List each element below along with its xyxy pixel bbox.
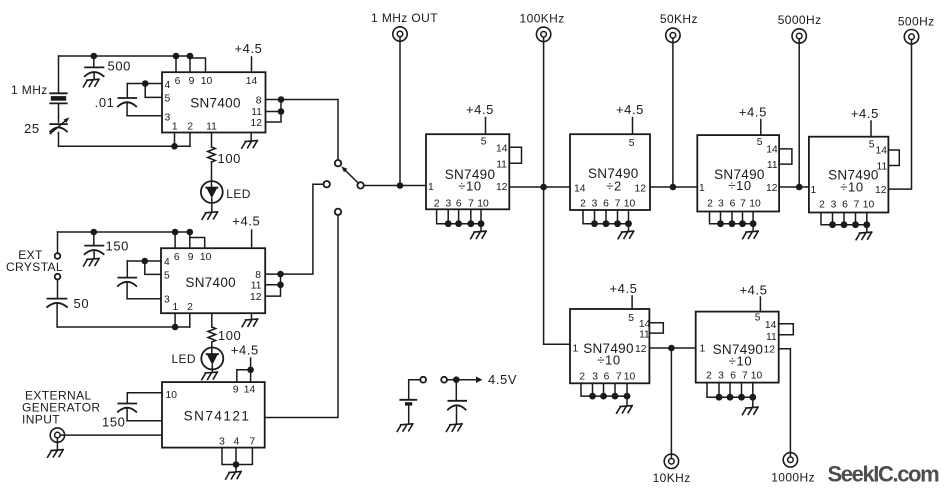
wire top rail oscillator 1: [59, 55, 191, 57]
wire ground stub U5: [628, 224, 630, 232]
svg-text:.01: .01: [95, 95, 115, 110]
svg-text:3: 3: [831, 200, 837, 211]
wire ground stub U1 pin 7: [250, 133, 252, 141]
svg-text:2: 2: [706, 371, 712, 382]
svg-text:25: 25: [24, 121, 40, 136]
wire +4.5 to pin 5 U8: [631, 296, 633, 309]
wire +4.5 to pin 5 U9: [759, 297, 761, 312]
svg-text:10: 10: [201, 76, 213, 87]
crystal Y1 1MHz: [50, 93, 66, 103]
op-amp U2 SN7400 body: [161, 248, 265, 313]
svg-text:10: 10: [200, 252, 212, 263]
label U9 SN7490: [713, 342, 764, 368]
svg-text:7: 7: [742, 371, 748, 382]
svg-text:12: 12: [635, 344, 647, 355]
svg-text:3: 3: [165, 113, 171, 124]
wire ground bus U7: [821, 213, 867, 225]
svg-text:11: 11: [496, 160, 507, 171]
wire tie 8-11: [280, 100, 282, 112]
svg-text:11: 11: [251, 281, 262, 292]
svg-text:7: 7: [740, 199, 746, 210]
svg-text:500: 500: [108, 59, 132, 74]
svg-text:1: 1: [700, 344, 706, 355]
capacitor C6 .01: [118, 261, 136, 299]
svg-text:150: 150: [102, 415, 126, 430]
wire 50KHz riser: [672, 38, 674, 187]
svg-text:4: 4: [164, 257, 170, 268]
counter U7 SN7490 div10 body: [809, 137, 889, 213]
switch S1 throw 3 contact: [335, 209, 341, 215]
svg-text:1: 1: [173, 302, 179, 313]
wire pin 11 U1 to resistor: [211, 133, 213, 148]
wire bottom rail oscillator 2: [58, 326, 190, 328]
node junctions bus U4: [445, 220, 485, 227]
node junctions bus U5: [591, 220, 632, 227]
wire 100KHz riser and feed to U8: [544, 37, 570, 344]
resistor R2 100: [208, 327, 216, 342]
wire ground stub U6: [752, 224, 754, 232]
wire ground stub U7: [866, 225, 868, 233]
svg-text:9: 9: [188, 252, 194, 263]
svg-text:14: 14: [766, 145, 778, 156]
wire pin 8 U1: [266, 99, 282, 101]
wire bottom rail oscillator 1: [59, 145, 191, 147]
svg-text:1 MHz OUT: 1 MHz OUT: [371, 11, 438, 25]
svg-text:+4.5: +4.5: [234, 41, 262, 56]
svg-text:11: 11: [767, 160, 778, 171]
switch S1 throw 2 contact: [324, 181, 330, 187]
svg-text:11: 11: [766, 332, 777, 343]
wire pin 1 U2 to rail: [174, 313, 176, 327]
terminal 1000Hz: [783, 453, 797, 467]
svg-text:500Hz: 500Hz: [898, 15, 935, 29]
node junction pin4/pin5 U2: [142, 258, 149, 265]
node junction pin4/pin5: [142, 80, 149, 87]
wire pin 9 U1: [189, 56, 191, 72]
wire ground bus U4: [437, 209, 481, 223]
wire pin 2 U2 to rail: [189, 313, 191, 327]
capacitor C7 150pF: [118, 393, 136, 421]
svg-text:1: 1: [811, 185, 817, 196]
capacitor trimmer 25pF: [50, 117, 69, 133]
op-amp U1 SN7400 body: [162, 72, 266, 132]
node junction rail2 / 150pF: [91, 229, 98, 236]
node +4.5V terminal: [441, 377, 447, 383]
svg-text:+4.5: +4.5: [231, 343, 259, 358]
ground under U7: [856, 232, 872, 240]
svg-text:2: 2: [580, 199, 586, 210]
wire pin 8 U2: [265, 273, 280, 275]
wire pin 12 U5 to 50KHz node: [650, 186, 697, 188]
wire C7 bottom to pin 5 U3: [127, 420, 162, 422]
svg-text:11: 11: [206, 122, 217, 133]
wire loop pins 14-11 U7: [888, 150, 899, 166]
svg-text:5: 5: [628, 313, 634, 324]
terminal 100KHz: [536, 27, 550, 41]
svg-text:1: 1: [428, 182, 434, 193]
svg-text:8: 8: [256, 95, 262, 106]
ground under LED1: [202, 212, 218, 220]
counter U8 SN7490 div10 body: [570, 309, 649, 383]
svg-text:1: 1: [573, 344, 579, 355]
wire +4.5 to pin 5 U5: [632, 118, 634, 135]
node ext crystal terminal lower: [55, 274, 61, 280]
wire loop pins 14-11 U6: [779, 149, 792, 164]
wire pins 3 4 7 bus U3: [222, 448, 252, 465]
pin labels right U1: [251, 95, 263, 129]
svg-text:2: 2: [434, 199, 440, 210]
wire ground stub U2 pin 7: [251, 313, 253, 319]
node junction pin 11: [278, 108, 285, 115]
terminal 500Hz: [904, 30, 918, 44]
node junctions bus U9: [716, 394, 757, 401]
svg-text:+4.5: +4.5: [232, 214, 260, 229]
wire ground stub U3: [235, 465, 237, 472]
wire crystal to trimmer: [58, 103, 60, 122]
counter U6 SN7490 div10 body: [697, 135, 779, 211]
svg-text:10: 10: [749, 199, 761, 210]
pin labels bottom U2: [173, 302, 194, 313]
wire pin 6 U1: [175, 56, 177, 72]
wire ground stub U4: [480, 224, 482, 232]
ground under U3: [226, 472, 242, 480]
wire junction down to pin 5: [145, 84, 162, 98]
svg-text:6: 6: [456, 199, 462, 210]
wire ground bus U9: [707, 383, 753, 398]
wire jog to pin 10 U1: [190, 58, 206, 72]
pin labels bottom U6: [707, 199, 761, 210]
wire C6 top to pin 4 U2: [127, 260, 161, 262]
wire jog to pin 10 U2: [190, 238, 205, 249]
wire loop pins 14-11 U4: [509, 147, 521, 163]
svg-text:14: 14: [246, 76, 258, 87]
wire U2 output to switch throw 2: [281, 184, 324, 274]
svg-text:4: 4: [165, 80, 171, 91]
wire 10KHz dropper: [670, 348, 672, 458]
wire resistor to LED1: [211, 162, 213, 187]
label EXT CRYSTAL: [6, 248, 63, 274]
pin labels bottom U9: [706, 371, 762, 382]
node junction pin 11 U2: [277, 282, 284, 289]
svg-text:÷10: ÷10: [597, 352, 620, 367]
capacitor C8 filter: [448, 383, 466, 425]
svg-text:7: 7: [468, 199, 474, 210]
node junctions bus U6: [717, 220, 756, 227]
ground under LED2: [202, 372, 218, 380]
pin labels left U2: [164, 257, 170, 306]
svg-text:5: 5: [481, 137, 487, 148]
wire pin 10 U3 to cap: [127, 392, 162, 394]
svg-text:÷2: ÷2: [606, 179, 622, 194]
wire top rail oscillator 2: [58, 231, 190, 233]
svg-text:150: 150: [106, 239, 130, 254]
svg-text:2: 2: [819, 200, 825, 211]
arrow 4.5V feed: [476, 377, 483, 383]
one-shot U3 SN74121 body: [162, 382, 265, 448]
wire ground stub U8: [626, 396, 628, 406]
svg-text:100: 100: [218, 328, 242, 343]
ground under U1: [242, 141, 258, 149]
wire terminal to 50pF: [57, 279, 59, 297]
label U4 SN7490: [445, 167, 496, 194]
wire terminal to arrow: [447, 379, 477, 381]
node junction filter cap: [453, 376, 460, 383]
wire pole to divider chain: [364, 185, 426, 187]
wire input terminal to U3: [60, 434, 162, 436]
wire 5000Hz riser: [798, 39, 800, 187]
svg-text:CRYSTAL: CRYSTAL: [6, 260, 63, 274]
wire tie 8-11 U2: [280, 274, 282, 285]
capacitor C1 500pF: [85, 56, 104, 79]
wire ground bus U6: [710, 212, 754, 224]
svg-text:5000Hz: 5000Hz: [778, 13, 822, 27]
svg-text:2: 2: [579, 371, 585, 382]
ground under U4: [471, 231, 487, 239]
wire ground bus U8: [581, 383, 627, 396]
svg-text:3: 3: [219, 437, 225, 448]
svg-text:11: 11: [251, 107, 262, 118]
terminal 1MHz OUT: [393, 27, 407, 41]
svg-text:9: 9: [189, 76, 195, 87]
switch S1 throw 1 contact: [335, 160, 341, 166]
capacitor C4 50pF: [47, 299, 67, 327]
svg-text:5: 5: [629, 138, 635, 149]
node junction top rail / pin 6: [173, 53, 180, 60]
svg-text:1: 1: [699, 183, 705, 194]
ground under U9: [742, 407, 758, 415]
wire pin 11 U1: [266, 111, 282, 113]
svg-text:12: 12: [250, 292, 262, 303]
node junction 5000Hz: [796, 184, 803, 191]
wire +4.5 to pin 14 U1: [251, 57, 253, 72]
svg-text:7: 7: [250, 437, 256, 448]
switch S1 pole contact: [357, 182, 363, 188]
counter U9 SN7490 div10 body: [696, 312, 779, 383]
node junction rail2 / pin 6: [172, 229, 179, 236]
svg-text:3: 3: [592, 371, 598, 382]
svg-text:50: 50: [74, 296, 90, 311]
svg-text:5: 5: [164, 271, 170, 282]
svg-text:12: 12: [496, 182, 508, 193]
node junctions bus U7: [829, 221, 870, 228]
battery BT1: [400, 400, 416, 424]
label U8 SN7490: [583, 341, 634, 368]
svg-text:10: 10: [624, 199, 636, 210]
wire pin 12 U8 to U9: [649, 347, 695, 349]
svg-text:÷10: ÷10: [458, 178, 481, 193]
ground under 500pF: [83, 79, 99, 87]
ground under filter cap: [446, 424, 462, 432]
node junction pin 8: [278, 96, 285, 103]
node junction 100KHz: [540, 184, 547, 191]
wire +4.5 to pin 5 U6: [760, 120, 762, 136]
svg-text:SN7400: SN7400: [190, 96, 241, 111]
node junction +4.5 U3: [247, 367, 254, 374]
wire ground bus U5: [583, 210, 629, 224]
terminal 50KHz: [666, 28, 680, 42]
svg-text:14: 14: [496, 143, 508, 154]
svg-text:3: 3: [718, 199, 724, 210]
svg-text:14: 14: [574, 184, 586, 195]
svg-text:÷10: ÷10: [840, 180, 863, 195]
svg-text:11: 11: [877, 162, 888, 173]
wire pin 11 U2 to resistor: [211, 313, 213, 327]
wire C2 top to pin 4: [127, 83, 162, 85]
wire pin 12 U6 to U7: [779, 186, 809, 188]
pin labels bottom U7: [819, 200, 874, 211]
svg-text:7: 7: [616, 371, 622, 382]
svg-text:10: 10: [477, 199, 489, 210]
ground under U8: [617, 406, 633, 414]
svg-text:6: 6: [730, 371, 736, 382]
terminal external generator input: [50, 428, 64, 442]
pin labels left U1: [165, 80, 171, 124]
svg-text:3: 3: [592, 199, 598, 210]
svg-text:12: 12: [766, 183, 778, 194]
svg-text:10KHz: 10KHz: [653, 471, 691, 485]
node junction rail2b / pin 1: [172, 324, 179, 331]
svg-text:1 MHz: 1 MHz: [11, 83, 48, 97]
svg-text:8: 8: [255, 270, 261, 281]
resistor R1 100: [208, 147, 216, 162]
wire ground stub U9: [752, 397, 754, 407]
svg-text:5: 5: [757, 137, 763, 148]
wire pin 6 U2: [174, 232, 176, 248]
capacitor C5 150pF: [85, 232, 104, 259]
capacitor C2 .01: [118, 84, 136, 116]
svg-text:12: 12: [764, 345, 776, 356]
wire U1 output to switch throw 1: [281, 100, 338, 160]
label U6 SN7490: [714, 167, 765, 193]
svg-text:2: 2: [187, 302, 193, 313]
svg-text:4: 4: [234, 437, 240, 448]
pin labels bottom U4: [434, 199, 489, 210]
svg-text:INPUT: INPUT: [22, 413, 60, 427]
svg-text:10: 10: [624, 371, 636, 382]
node junction 1MHz out: [397, 182, 404, 189]
svg-text:9: 9: [233, 385, 239, 396]
ground under 150pF: [84, 258, 100, 266]
svg-text:+4.5: +4.5: [851, 106, 879, 121]
wire rail2 to ext crystal terminal: [57, 232, 59, 253]
wire pin 11 U2: [265, 284, 280, 286]
ground under U2: [242, 319, 258, 327]
wire +4.5 to pin 5 U7: [870, 121, 872, 137]
svg-text:SN74121: SN74121: [184, 409, 251, 424]
svg-text:6: 6: [604, 371, 610, 382]
svg-text:6: 6: [842, 200, 848, 211]
wire junction to pin 5 U2: [145, 261, 161, 274]
node junction 10KHz: [668, 345, 675, 352]
svg-text:6: 6: [603, 199, 609, 210]
svg-text:7: 7: [854, 200, 860, 211]
node junction bottom rail / pin 1: [171, 143, 178, 150]
svg-text:6: 6: [175, 76, 181, 87]
node battery terminal: [420, 377, 426, 383]
pin labels 9 14 U3: [233, 385, 256, 396]
ground under U6: [743, 231, 759, 239]
ground under battery: [397, 424, 413, 432]
svg-text:12: 12: [875, 185, 887, 196]
terminal 10KHz: [664, 454, 678, 468]
switch S1 arm with arrow: [341, 166, 358, 183]
wire 1MHz out riser: [399, 37, 401, 186]
wire C6 bottom to pin 3 U2: [127, 298, 161, 300]
svg-text:6: 6: [174, 252, 180, 263]
wire +4.5 to pin 5 U4: [485, 118, 487, 135]
svg-text:2: 2: [187, 122, 193, 133]
node junction 50KHz: [670, 184, 677, 191]
svg-text:5: 5: [755, 313, 761, 324]
svg-text:11: 11: [639, 329, 650, 340]
svg-text:+4.5: +4.5: [739, 282, 767, 297]
wire C2 bottom to pin 3: [127, 115, 162, 117]
svg-text:+4.5: +4.5: [739, 105, 767, 120]
svg-text:14: 14: [244, 385, 256, 396]
wire pin 12 U1: [266, 112, 282, 123]
svg-text:3: 3: [164, 295, 170, 306]
wire trimmer to bottom rail: [58, 133, 60, 147]
LED LED2: [201, 348, 223, 373]
svg-text:÷10: ÷10: [728, 178, 751, 193]
svg-text:2: 2: [707, 199, 713, 210]
pin labels right U2: [250, 270, 262, 303]
wire pin 12 U4 to 100KHz node: [509, 186, 570, 188]
wire throw 3 to SN74121 output: [265, 215, 338, 418]
wire pin 12 U2: [265, 285, 280, 296]
wire loop pins 14-11 U8: [649, 323, 663, 333]
wire pin 9 U2: [189, 232, 191, 248]
node junctions bus U8: [589, 393, 630, 400]
terminal 5000Hz: [792, 29, 806, 43]
node junction top rail / pin 9: [187, 53, 194, 60]
svg-text:3: 3: [446, 199, 452, 210]
svg-text:+4.5: +4.5: [616, 102, 644, 117]
svg-text:10: 10: [863, 200, 875, 211]
svg-text:12: 12: [635, 184, 647, 195]
counter U4 SN7490 div10 body: [426, 134, 509, 209]
wire pin 2 U1 to bottom rail: [189, 133, 191, 147]
wire pin 12 U7 to 500Hz riser: [888, 40, 911, 189]
svg-text:10: 10: [751, 371, 763, 382]
wire +4.5 feed U3: [250, 358, 252, 370]
svg-text:14: 14: [639, 319, 651, 330]
svg-text:LED: LED: [171, 352, 196, 366]
wire pin 1 U1 to bottom rail: [174, 133, 176, 147]
svg-text:5: 5: [165, 94, 171, 105]
node junction pin bus U3: [233, 461, 240, 468]
svg-text:1000Hz: 1000Hz: [771, 471, 815, 485]
node junction top rail / 500pF: [91, 53, 98, 60]
svg-text:3: 3: [718, 371, 724, 382]
svg-text:4.5V: 4.5V: [488, 372, 517, 387]
svg-text:6: 6: [730, 199, 736, 210]
pin labels 3 4 7 U3: [219, 437, 255, 448]
label EXTERNAL GENERATOR INPUT: [22, 389, 101, 427]
svg-text:+4.5: +4.5: [609, 281, 637, 296]
svg-text:100KHz: 100KHz: [520, 12, 565, 26]
ground under U5: [618, 231, 634, 239]
wire battery terminal to battery: [409, 380, 421, 399]
pin labels top U1: [175, 76, 258, 87]
svg-text:10: 10: [166, 390, 178, 401]
svg-text:LED: LED: [226, 187, 251, 201]
svg-text:50KHz: 50KHz: [660, 12, 698, 26]
pin labels top U2: [174, 252, 212, 263]
wire loop pins 14-11 U9: [779, 324, 794, 335]
svg-text:5: 5: [869, 139, 875, 150]
node junction pin 8 U2: [277, 271, 284, 278]
